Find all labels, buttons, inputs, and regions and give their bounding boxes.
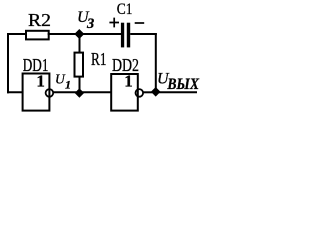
svg-text:DD1: DD1 [23,55,49,75]
svg-text:R2: R2 [28,10,51,30]
svg-text:ВЫХ: ВЫХ [167,76,200,93]
polarity minus [135,22,145,24]
node U1 [75,88,84,97]
resistor R1 lead bottom [79,77,81,93]
gate DD2 [111,71,143,110]
wire top-right segment [130,33,157,35]
wire DD2 output to output node [143,91,156,93]
polarity plus [109,18,119,28]
wire DD1 output to node U1 [53,91,79,93]
label U_vyh [157,71,199,94]
wire right vertical [155,33,157,92]
gate DD1 [23,71,54,110]
label U3 [77,9,94,32]
resistor R1 lead top [79,33,81,53]
wire top-left segment [7,33,27,35]
node U_vyh output [151,87,161,97]
svg-text:C1: C1 [117,1,133,18]
capacitor C1 plate right [127,23,130,48]
wire output right [156,91,197,93]
capacitor C1 plate left [121,23,124,48]
svg-text:3: 3 [86,16,94,32]
node U3 [74,29,84,39]
label U1 [55,71,71,91]
wire left vertical [7,33,9,93]
wire top-middle segment [48,33,122,35]
svg-text:DD2: DD2 [112,55,139,75]
wire DD1 input [7,91,24,93]
wire node U1 to DD2 input [79,91,112,93]
svg-text:1: 1 [65,78,71,92]
resistor R1 body [75,53,84,77]
svg-text:R1: R1 [91,49,107,69]
resistor R2 [26,31,49,40]
